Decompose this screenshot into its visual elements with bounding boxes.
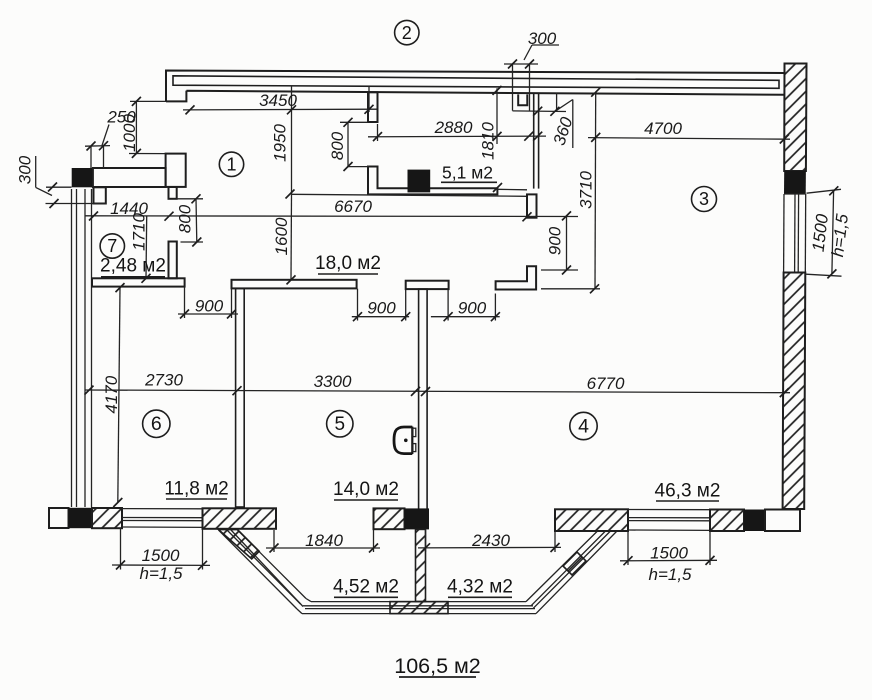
dim 2880 <box>368 135 546 138</box>
svg-text:h=1,5: h=1,5 <box>648 565 692 584</box>
wall room7 bottom <box>92 278 185 286</box>
svg-text:5,1 м2: 5,1 м2 <box>442 163 493 183</box>
wall step block <box>166 154 186 187</box>
wall top inner face <box>166 91 785 102</box>
column top-left black <box>72 168 93 187</box>
dim 900 door room4 <box>431 316 500 318</box>
svg-text:3300: 3300 <box>314 372 352 391</box>
wall stub 360 <box>556 93 558 112</box>
svg-text:18,0 м2: 18,0 м2 <box>315 253 381 274</box>
svg-text:800: 800 <box>176 204 195 233</box>
column bay divider black <box>405 508 430 529</box>
svg-text:6770: 6770 <box>587 374 625 393</box>
svg-text:1500: 1500 <box>142 546 180 565</box>
dim 360 leader <box>555 100 573 112</box>
wall stub room7 right <box>169 242 177 279</box>
svg-text:7: 7 <box>107 236 117 256</box>
dim 3450 <box>183 108 377 111</box>
svg-text:106,5 м2: 106,5 м2 <box>394 654 481 678</box>
wire wall face line to right <box>497 188 527 191</box>
svg-text:2730: 2730 <box>144 371 183 390</box>
wall bottom hatched block d <box>555 509 628 531</box>
svg-text:2: 2 <box>402 23 412 43</box>
dim 900 door room7 <box>178 313 238 315</box>
window left wall glazing lines <box>72 189 92 507</box>
wall segment below closet band <box>527 194 537 217</box>
area labels <box>100 163 720 679</box>
svg-text:5: 5 <box>335 414 346 435</box>
dim 2430 <box>418 546 561 549</box>
wall bottom hatched block c <box>374 508 405 529</box>
svg-text:4: 4 <box>578 416 589 438</box>
dim 4170 vertical <box>118 288 120 504</box>
wall bar kitchen partition <box>93 168 166 187</box>
bay bottom hatched block <box>390 602 448 614</box>
svg-text:2880: 2880 <box>434 118 473 137</box>
dim 1600 vertical <box>290 194 293 280</box>
dim chain 2730 3300 6770 <box>85 390 790 393</box>
dim 1500 bottom left <box>112 564 210 566</box>
column closet black <box>408 170 431 193</box>
dim 300 top <box>504 45 559 64</box>
dim 1710 vertical <box>145 216 148 278</box>
svg-text:11,8 м2: 11,8 м2 <box>164 479 228 500</box>
wall top exterior outer contour <box>166 71 785 102</box>
svg-text:4170: 4170 <box>102 375 121 413</box>
wall closet 5.1 bottom L <box>368 167 497 195</box>
dim 900 door room5 left <box>352 316 409 318</box>
dim 250 <box>85 145 110 148</box>
wall corner bottom right white <box>765 510 800 532</box>
window right wall 1500 <box>784 194 806 273</box>
dim 300 left wall <box>46 186 72 188</box>
dim 1810 vertical <box>496 88 498 144</box>
svg-text:4,52 м2: 4,52 м2 <box>333 577 399 598</box>
svg-text:300: 300 <box>16 155 35 184</box>
dim 3710 vertical <box>594 92 597 290</box>
dim 4700 <box>588 138 790 140</box>
bay left diagonal hatched segment <box>219 530 260 559</box>
door symbol room 5 <box>394 427 412 454</box>
svg-text:3710: 3710 <box>577 171 596 209</box>
wall bottom left white block <box>49 508 69 528</box>
window bottom right 1500 <box>628 510 710 531</box>
dim 800 closet vertical <box>347 122 349 166</box>
wall top slot (double line panel) <box>173 76 779 89</box>
bay divider hatched strip <box>416 529 426 601</box>
svg-text:1600: 1600 <box>272 217 291 255</box>
svg-text:900: 900 <box>195 297 224 316</box>
svg-text:1810: 1810 <box>479 122 498 160</box>
svg-text:1710: 1710 <box>129 213 148 251</box>
svg-text:14,0 м2: 14,0 м2 <box>333 479 399 500</box>
bay bottom window band <box>302 602 536 614</box>
ticks <box>48 60 838 570</box>
svg-text:3: 3 <box>699 189 709 209</box>
svg-text:4,32 м2: 4,32 м2 <box>447 577 513 598</box>
svg-text:6: 6 <box>151 413 162 435</box>
wall bottom hatched block a <box>92 508 122 528</box>
svg-text:46,3 м2: 46,3 м2 <box>655 481 721 502</box>
notch square <box>518 94 527 105</box>
chain line room 18.0 top <box>292 194 528 196</box>
dim texts horizontal <box>106 29 692 584</box>
window bottom left 1500 <box>122 509 203 528</box>
dim 1840 <box>266 547 380 549</box>
column bottom left black <box>69 508 93 528</box>
bay left diagonal window <box>219 530 312 614</box>
svg-text:900: 900 <box>367 299 396 318</box>
bay right diagonal hatched segment <box>563 552 586 575</box>
wall rooms 5/4 <box>419 289 428 510</box>
svg-text:3450: 3450 <box>259 91 297 110</box>
wall T-cap rooms 5/4 top <box>406 281 449 289</box>
svg-text:1000: 1000 <box>120 114 139 152</box>
svg-text:2430: 2430 <box>471 531 510 550</box>
bay right diagonal window <box>526 532 617 614</box>
dim 1500 bottom right <box>620 559 717 562</box>
node circled room numbers <box>100 20 716 439</box>
dim 1950 vertical <box>291 86 293 194</box>
dim 1500 right wall window <box>807 189 842 193</box>
dim 800 left vertical <box>195 199 198 242</box>
wall rooms 6/5 <box>236 288 245 507</box>
svg-text:h=1,5: h=1,5 <box>139 564 183 583</box>
svg-text:900: 900 <box>458 299 487 318</box>
svg-text:300: 300 <box>528 29 557 48</box>
dim texts rotated <box>16 114 853 414</box>
wall right exterior hatched lower <box>783 273 806 510</box>
column right wall black <box>784 171 806 194</box>
svg-text:6670: 6670 <box>334 197 372 216</box>
area label underlines <box>101 182 719 677</box>
wall band rooms 1/6 <box>232 280 357 289</box>
dim chain 1440 6670 <box>85 215 578 218</box>
wall right exterior hatched upper <box>784 64 806 172</box>
svg-text:1840: 1840 <box>305 531 343 550</box>
wall closet right double line <box>533 93 535 189</box>
svg-text:4700: 4700 <box>644 119 682 138</box>
svg-text:1: 1 <box>226 155 236 175</box>
dim 1000 vertical <box>135 101 137 153</box>
dim 900 vertical closet <box>566 216 568 270</box>
wall stub below step <box>169 187 177 199</box>
pier left wall 250x300 <box>94 187 106 203</box>
svg-text:900: 900 <box>546 226 565 255</box>
wall stub closet 5.1 left upper <box>368 92 378 122</box>
svg-text:1950: 1950 <box>271 124 290 162</box>
svg-text:800: 800 <box>328 131 347 160</box>
wall bottom hatched block e <box>710 510 744 532</box>
column bottom right black <box>744 510 765 532</box>
wall 300 stub top center <box>512 64 514 111</box>
svg-text:1500: 1500 <box>650 544 688 563</box>
wall bottom hatched block b <box>203 508 277 529</box>
wall L corner room 4 <box>496 266 536 289</box>
